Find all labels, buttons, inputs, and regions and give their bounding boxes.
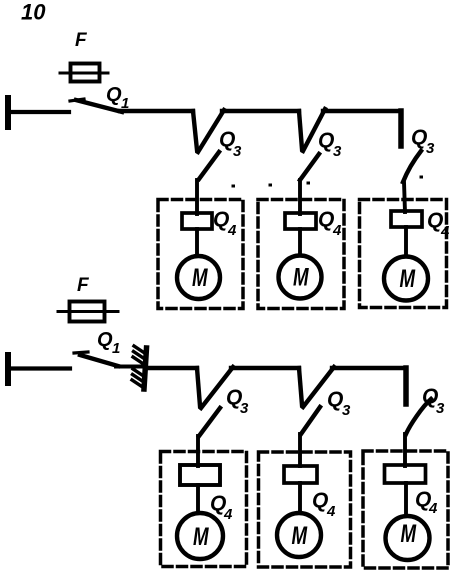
svg-text:1: 1 xyxy=(121,95,129,112)
svg-text:M: M xyxy=(401,519,417,547)
svg-text:Q: Q xyxy=(411,126,427,149)
svg-text:M: M xyxy=(193,522,209,550)
svg-text:4: 4 xyxy=(440,223,450,240)
svg-text:Q: Q xyxy=(106,84,122,106)
svg-text:3: 3 xyxy=(436,400,445,417)
svg-text:Q: Q xyxy=(318,208,334,231)
svg-text:4: 4 xyxy=(223,506,233,523)
svg-text:Q: Q xyxy=(97,329,113,351)
svg-text:4: 4 xyxy=(227,222,237,239)
svg-text:Q: Q xyxy=(312,489,328,512)
svg-text:1: 1 xyxy=(112,340,120,357)
svg-text:10: 10 xyxy=(21,0,46,25)
svg-text:3: 3 xyxy=(233,143,242,160)
svg-text:4: 4 xyxy=(428,500,438,517)
svg-text:F: F xyxy=(75,30,88,51)
svg-text:3: 3 xyxy=(333,143,342,160)
svg-text:M: M xyxy=(293,263,309,291)
svg-text:4: 4 xyxy=(332,222,342,239)
svg-text:F: F xyxy=(77,275,90,296)
svg-text:M: M xyxy=(192,263,208,291)
svg-text:3: 3 xyxy=(240,400,249,417)
svg-text:M: M xyxy=(400,264,416,292)
svg-text:M: M xyxy=(292,521,308,549)
svg-text:3: 3 xyxy=(426,140,435,157)
svg-text:4: 4 xyxy=(326,503,336,520)
svg-text:Q: Q xyxy=(327,388,343,411)
svg-text:3: 3 xyxy=(342,402,351,419)
svg-text:Q: Q xyxy=(318,129,334,152)
svg-text:Q: Q xyxy=(213,208,229,231)
